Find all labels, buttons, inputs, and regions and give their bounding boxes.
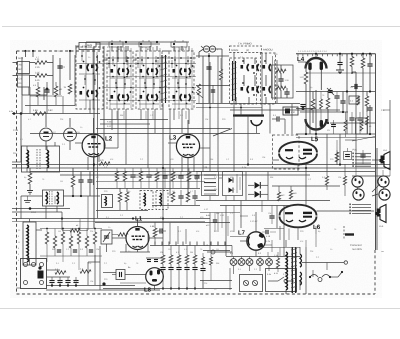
resistor R40 — [55, 271, 66, 275]
wire: IF can label boxes — [109, 42, 123, 47]
junction dots top-left — [24, 50, 26, 52]
chassis border dashed — [16, 51, 18, 294]
wire: center links — [202, 56, 204, 134]
wire: L7 area extras — [200, 212, 240, 214]
wire: L7 web — [233, 206, 235, 233]
RC cluster box — [272, 65, 294, 98]
trimmer C40 — [101, 230, 112, 244]
heater socket H3 — [378, 176, 389, 187]
wire: left col verticals — [20, 114, 22, 163]
wire: trunk verticals B — [305, 163, 307, 205]
wire: y196 links — [21, 195, 42, 197]
capacitor band I — [178, 175, 183, 177]
speckle — [10, 40, 382, 298]
resistor bank G — [93, 232, 96, 244]
IF transformer T1 — [76, 47, 103, 109]
wire: L1 links — [112, 237, 126, 239]
resistor R5 — [33, 112, 46, 116]
wire: lamp row drops — [249, 266, 251, 271]
wire: y288 bus — [103, 288, 232, 290]
wire: under L6 web — [262, 247, 300, 249]
wire: IF can drops — [111, 109, 113, 130]
wire: left mid web — [30, 95, 62, 97]
box R56 — [356, 118, 368, 134]
wire: y285 rail — [46, 285, 135, 287]
resistor R23 vertical — [311, 99, 315, 110]
diode block — [223, 172, 243, 196]
battery stack B1 — [202, 172, 219, 196]
bottom column extra B — [210, 257, 213, 265]
resistor R25 vertical — [365, 96, 369, 106]
wire: bank drops — [46, 256, 48, 262]
text block 2 — [352, 204, 371, 206]
wire: mains links — [29, 219, 31, 222]
wire: comb extension — [210, 242, 212, 246]
resistor R30 vertical — [28, 173, 32, 184]
wire: y113 rail — [12, 113, 100, 115]
coil box small — [102, 195, 113, 208]
resistor R3 vertical — [68, 84, 72, 94]
tube L3 — [176, 134, 199, 157]
resistor R_osc1 — [219, 69, 222, 80]
capacitor C20 — [337, 62, 342, 64]
wire: trunk verticals A — [162, 196, 164, 245]
resistor R31 vertical — [71, 176, 75, 187]
resistor band F — [155, 172, 159, 181]
resistor R22 vertical — [361, 58, 365, 68]
coupling transformer T5 — [43, 190, 64, 206]
heavy bar — [233, 114, 264, 116]
resistor bank A — [45, 232, 48, 244]
capacitor C3 — [44, 89, 49, 91]
resistor R6 — [99, 162, 110, 166]
wire: left-bot risers — [87, 262, 89, 285]
diagonal wire — [213, 129, 232, 137]
heater socket H1 — [352, 176, 363, 187]
wire: top manifold — [86, 41, 189, 43]
resistor bank C — [61, 232, 64, 244]
wire: rectifier links — [196, 171, 202, 173]
wire: right mid extras — [336, 140, 338, 150]
wire: cluster — [280, 65, 282, 71]
capacitor C41 — [159, 228, 161, 233]
wire: osc coil links — [243, 58, 245, 64]
FM tuner coil box — [22, 146, 60, 172]
wire: L5 L6 between — [272, 185, 340, 187]
wire: transformer links — [285, 240, 287, 247]
wire: IF can feeds — [75, 47, 77, 55]
resistor R_osc2 — [197, 84, 200, 95]
resistor band B — [123, 171, 127, 181]
ground G1 — [27, 190, 33, 192]
magic eye curve — [251, 120, 262, 126]
triode V1b — [64, 128, 77, 141]
diode pair D1 D2 — [255, 182, 261, 189]
cluster right of boxes — [171, 192, 175, 202]
wire: right column top — [346, 54, 348, 92]
wire: bottom-left extras — [87, 196, 89, 230]
resistor R21 vertical — [350, 57, 354, 67]
tube L8 — [146, 268, 164, 286]
capacitor bank H — [57, 249, 61, 251]
switch box A — [240, 275, 263, 292]
tuner coil B — [47, 150, 49, 168]
wire: comb rail — [150, 245, 232, 247]
resistor R55 vertical — [344, 120, 347, 131]
wire: can pass-through verticals — [85, 47, 87, 109]
heater socket H2 — [353, 189, 364, 200]
wire: can grid fill — [109, 48, 111, 108]
wire: y137 double — [296, 137, 375, 139]
wire: top-left verticals — [21, 57, 23, 95]
coil pair A — [241, 65, 244, 69]
wire: mid rails — [12, 164, 390, 166]
resistor bank E — [77, 232, 80, 244]
bottom column extra A — [202, 257, 205, 265]
capacitor C11 — [284, 91, 289, 93]
wire: lamp feed — [198, 52, 200, 58]
IF transformer T3 — [136, 51, 162, 109]
tube L1 — [126, 227, 149, 250]
capacitor band K — [194, 175, 199, 177]
resistor R50 vertical — [118, 192, 122, 202]
wire: mid stubs — [240, 104, 242, 116]
capacitor C51 — [331, 124, 336, 126]
wire: box2 inner verticals — [272, 56, 274, 100]
mains choke — [23, 222, 36, 265]
wire: L3 connections — [187, 120, 189, 135]
bottom columns — [161, 255, 165, 264]
tuning gang hatched bars — [161, 55, 163, 103]
capacitor C30 — [276, 116, 278, 121]
scan edge top — [2, 26, 400, 28]
wire: L4 pins — [309, 70, 311, 98]
wire: y119-133 rails — [100, 119, 168, 121]
resistor bank D — [69, 236, 72, 248]
wire: y208 rail — [12, 208, 70, 210]
wire: aerial feed — [13, 62, 18, 64]
resistor band J — [187, 172, 191, 181]
wire: can block horizontals — [76, 63, 196, 65]
wire: speaker link — [376, 148, 378, 250]
wire: under tuner — [12, 161, 21, 163]
tuning gang bars 2 — [232, 61, 234, 101]
dial lamp P1 — [203, 46, 209, 52]
capacitor C32 — [87, 179, 92, 181]
resistor R24 vertical — [326, 98, 330, 109]
input terminal block — [18, 62, 30, 74]
wire: L8 links — [103, 272, 116, 274]
wire: top rail with ticks — [296, 53, 376, 55]
resistor R2 — [35, 74, 47, 78]
coil pair B — [241, 87, 244, 91]
triode V1a — [40, 128, 53, 141]
wire: 205 rail — [220, 205, 290, 207]
stage box — [273, 135, 300, 169]
wire: low rail — [17, 293, 201, 295]
wire: L7 links — [255, 212, 257, 232]
FM switch box — [79, 43, 100, 50]
capacitor C31 — [78, 179, 83, 181]
resistor R11 — [276, 86, 286, 90]
mixer block — [283, 107, 298, 115]
wire: y107 link — [196, 107, 262, 109]
resistor band D — [139, 171, 143, 181]
wire: left drops — [20, 196, 22, 219]
capacitor C23 — [354, 84, 356, 89]
tube L7 — [247, 232, 265, 250]
dashed pair boxes — [140, 191, 153, 210]
resistor band H — [171, 172, 175, 181]
capacitor band C — [130, 174, 135, 176]
wire: right bottom — [343, 226, 345, 240]
resistor R10 — [276, 69, 286, 73]
resistors above L6 — [277, 192, 280, 201]
oscillator coil box — [230, 58, 257, 104]
IF transformer T4 — [169, 51, 194, 109]
wire: y188 y210 rails — [96, 188, 200, 190]
box right mid — [349, 96, 359, 104]
band coil box 2 — [261, 53, 276, 104]
coil C — [263, 65, 266, 69]
resistor R51 vertical — [125, 192, 129, 202]
wire: heater links — [352, 175, 390, 177]
capacitor C42 — [116, 270, 125, 280]
wire: right verticals — [375, 54, 377, 250]
junction dot left — [46, 88, 49, 91]
scan edge bottom — [0, 308, 400, 310]
wire: bus y90 — [296, 91, 375, 93]
capacitor C10 — [278, 78, 283, 80]
capacitor band E — [146, 174, 151, 176]
junction dot — [302, 107, 305, 110]
wire: y133 bus — [296, 133, 376, 135]
resistor bank B — [53, 236, 56, 248]
tuner coil A — [27, 150, 29, 168]
tube L4 envelope — [306, 58, 327, 69]
speaker SP1 — [380, 152, 390, 170]
wire: L4 left — [305, 68, 307, 72]
heater socket H4 — [379, 189, 390, 200]
wire: upper band rails — [96, 181, 205, 183]
capacitor band G — [162, 175, 167, 177]
switch box B — [266, 269, 297, 292]
wire: bus y112 — [300, 111, 348, 113]
resistor R41 — [80, 270, 91, 274]
wire: y218 rail — [12, 218, 210, 220]
wire: can area verticals — [108, 60, 110, 68]
wire: y262 line — [302, 262, 344, 264]
resistor R52 — [153, 228, 157, 237]
capacitor on x209 — [206, 66, 211, 68]
tube L2 — [82, 134, 105, 157]
resistor bank F — [85, 236, 88, 248]
capacitor C50 box — [344, 152, 352, 160]
power transformer T6 — [291, 247, 293, 293]
trimmer C22 — [327, 88, 334, 95]
band switch box — [230, 46, 262, 53]
resistor band A — [115, 171, 119, 181]
resistor R20 vertical — [304, 72, 308, 84]
capacitor C25 — [367, 107, 372, 109]
resistor R1 — [35, 61, 47, 65]
lamp row — [230, 259, 237, 266]
heavy dash mark — [345, 233, 354, 235]
dial lamp P2 — [209, 46, 215, 52]
capacitor C24 — [340, 100, 345, 102]
tube L5 — [279, 142, 317, 153]
text block instructions — [355, 153, 371, 155]
wire: left resistor bank rails — [40, 228, 102, 230]
capacitor C1 — [57, 65, 62, 67]
voltage selector — [21, 259, 47, 289]
tuner core — [36, 149, 38, 169]
wire: right column extras — [389, 100, 391, 168]
wire: L4 right rail — [306, 72, 375, 74]
wire: L2 connections — [93, 118, 95, 134]
IF transformer T2 — [107, 51, 133, 109]
tube L6 — [280, 205, 317, 216]
resistor R4a vertical — [36, 87, 40, 97]
wire: bottom-right risers — [305, 247, 307, 294]
resistor R4b vertical — [54, 86, 58, 97]
mains switch — [310, 275, 318, 278]
speaker SP2 — [376, 205, 386, 223]
capacitor C21 — [367, 63, 372, 65]
wire: y222-245 zone — [95, 222, 230, 224]
